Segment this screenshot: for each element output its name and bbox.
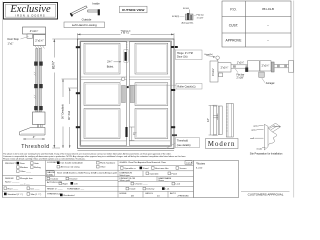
swing diagram <box>70 6 100 17</box>
hatch under box <box>35 46 45 49</box>
active leaf open (angled) <box>72 6 88 15</box>
svg-text:ACTIVE DOOR: ACTIVE DOOR <box>47 181 62 184</box>
right leaf panel1 <box>135 43 168 74</box>
deadbolt dot <box>127 86 129 88</box>
hinge block 1 <box>34 62 37 66</box>
svg-text:PRODUCT: PRODUCT <box>5 163 16 165</box>
door stop notch <box>27 34 33 38</box>
svg-text:Urn ____: Urn ____ <box>31 187 41 190</box>
svg-text:1"x1/4": 1"x1/4" <box>197 18 204 20</box>
svg-text:Brass ___: Brass ___ <box>159 179 170 182</box>
left leaf panel3 <box>84 109 120 139</box>
svg-text:Wrought Iron: Wrought Iron <box>20 177 33 180</box>
right leaf panel2 <box>135 83 168 106</box>
svg-text:12": 12" <box>133 133 137 136</box>
stop square <box>219 73 223 77</box>
svg-text:Residential: Residential <box>64 194 75 197</box>
hinge label box <box>176 50 203 60</box>
left col rows <box>3 174 46 176</box>
svg-text:TURNTABLE ___: TURNTABLE ___ <box>67 187 85 190</box>
handle bar <box>213 105 218 135</box>
svg-text:2"x1¾": 2"x1¾" <box>262 64 270 67</box>
svg-text:Window: Window <box>20 167 28 169</box>
svg-text:4"x1¾": 4"x1¾" <box>30 29 39 33</box>
right leaf panel3 <box>135 109 168 139</box>
svg-text:051-01-B: 051-01-B <box>262 7 274 11</box>
svg-text:wall: wall <box>250 138 254 140</box>
top flush bolt <box>124 50 128 63</box>
svg-text:2"x1/8": 2"x1/8" <box>237 77 244 79</box>
svg-text:Threshold: Threshold <box>21 144 49 150</box>
sheet right border <box>293 1 295 198</box>
roller catch circle <box>122 77 125 80</box>
svg-text:Steel 12GA Stainless 304b: Steel 12GA Stainless 304b Heavy 10GA Cus… <box>57 172 117 175</box>
svg-text:AUTO: AUTO <box>170 192 176 195</box>
svg-text:*Notes: *Notes <box>196 162 206 166</box>
svg-text:Fixed: Fixed <box>143 168 149 170</box>
hatched strip left lock stile <box>121 85 125 102</box>
svg-text:grout: grout <box>254 124 259 127</box>
svg-text:Bckst.: Bckst. <box>107 64 114 68</box>
svg-text:70½": 70½" <box>121 30 131 35</box>
svg-text:13": 13" <box>207 118 210 122</box>
svg-text:P.O.: P.O. <box>230 7 236 11</box>
svg-text:Left: Left <box>74 182 78 185</box>
svg-text:HINGE: 4" ____: HINGE: 4" ____ <box>47 188 63 190</box>
leaf box <box>218 63 231 72</box>
svg-text:Standard (1 ¾"): Standard (1 ¾") <box>8 193 24 196</box>
svg-text:Low-E: Low-E <box>186 162 193 164</box>
passive cap <box>98 9 100 15</box>
svg-text:APPROVE: APPROVE <box>226 38 243 42</box>
hinge ticks right frame <box>171 46 174 48</box>
svg-text:Railing: Railing <box>34 167 41 169</box>
dim 70.5 top <box>77 33 174 39</box>
svg-text:Please review all details care: Please review all details carefully. Gla… <box>3 157 86 160</box>
svg-text:4": 4" <box>33 135 35 139</box>
svg-text:2"x1¾": 2"x1¾" <box>35 39 44 43</box>
svg-text:Left Hand In-swing: Left Hand In-swing <box>72 23 97 27</box>
svg-text:Riser ____: Riser ____ <box>8 187 19 190</box>
dim 4 inch <box>23 138 45 140</box>
svg-text:OUTSIDE VIEW: OUTSIDE VIEW <box>122 8 145 12</box>
svg-text:81½": 81½" <box>52 60 56 69</box>
plan section detail right <box>210 56 294 82</box>
svg-text:Iron handle w/deadbolt: Iron handle w/deadbolt <box>61 162 84 165</box>
modern pull detail <box>209 104 234 138</box>
hinge cap active <box>70 13 73 17</box>
svg-text:Plank hardware: Plank hardware <box>100 162 116 165</box>
svg-text:GLASS: Clear/Tint Aquatex: GLASS: Clear/Tint Aquatex Rain Bronzish … <box>120 161 167 164</box>
svg-text:Door Stop: Door Stop <box>8 38 20 41</box>
svg-text:Inside: Inside <box>92 2 100 6</box>
svg-text:4"x1¾": 4"x1¾" <box>212 68 215 76</box>
spacing ticks <box>34 72 36 99</box>
svg-text:1"x1": 1"x1" <box>8 42 14 45</box>
svg-text:Name: ______: Name: ______ <box>5 182 20 184</box>
svg-text:Hurricane film: Hurricane film <box>155 167 169 170</box>
svg-text:Install: Install <box>130 188 136 191</box>
passive leaf closed <box>88 10 98 12</box>
svg-text:L.A.: L.A. <box>166 188 170 191</box>
right leaf slab <box>129 42 170 146</box>
svg-text:Silver gold ___: Silver gold ___ <box>120 179 135 182</box>
box 4x1.75 <box>23 27 46 34</box>
svg-text:American std swing: American std swing <box>61 166 81 169</box>
svg-text:40" Pull: 40" Pull <box>67 111 71 120</box>
svg-text:CUST.: CUST. <box>229 23 239 27</box>
svg-text:Screen: Screen <box>180 167 188 170</box>
svg-text:LOCKSET: LOCKSET <box>47 162 58 164</box>
svg-text:Fixed: Fixed <box>172 173 178 175</box>
svg-text:Operable or: Operable or <box>124 167 136 170</box>
svg-text:Outside: Outside <box>82 17 92 21</box>
Modern label box <box>206 139 239 149</box>
form texts right col <box>120 161 193 198</box>
svg-text:2"x1¾": 2"x1¾" <box>221 66 229 69</box>
svg-text:inside: inside <box>257 148 263 150</box>
notes box <box>194 161 239 198</box>
svg-text:Modern: Modern <box>208 141 236 148</box>
customers approval <box>241 190 290 192</box>
OUTSIDE VIEW box <box>120 6 148 13</box>
wide stile bar <box>226 104 233 138</box>
legs <box>37 125 39 128</box>
form texts left col <box>4 162 42 196</box>
svg-text:Other ____: Other ____ <box>20 170 32 173</box>
svg-text:Chrome ____: Chrome ____ <box>135 183 149 186</box>
svg-text:Flat bar: Flat bar <box>237 73 245 76</box>
svg-text:Astragal: Astragal <box>266 82 275 85</box>
bottom flush bolt <box>125 127 127 137</box>
svg-text:Metal type: __: Metal type: __ <box>120 174 135 177</box>
order form <box>3 161 194 198</box>
svg-text:Gate: Gate <box>34 162 40 165</box>
dim 12 flush bolt <box>129 127 134 141</box>
frame inner <box>80 41 171 146</box>
svg-text:grout: grout <box>252 129 257 132</box>
svg-text:R-100: R-100 <box>183 8 190 10</box>
svg-text:--: -- <box>267 38 269 42</box>
right terminal <box>289 61 294 72</box>
svg-text:2¾": 2¾" <box>107 59 112 63</box>
svg-text:___ x ___: ___ x ___ <box>19 184 30 186</box>
svg-text:DESIGN: DESIGN <box>5 178 14 180</box>
svg-text:50" Deadbolt: 50" Deadbolt <box>60 104 64 119</box>
left leaf panel1 <box>84 43 120 74</box>
hatched strip right lock stile <box>130 85 134 102</box>
svg-text:Flat bar: Flat bar <box>197 14 205 17</box>
dim 50 deadbolt <box>62 79 78 148</box>
svg-text:GRILLS: GRILLS <box>145 193 153 195</box>
frame outer <box>77 39 174 148</box>
svg-text:IRON & DOORS: IRON & DOORS <box>16 13 46 17</box>
left leaf slab <box>81 42 127 146</box>
P.O. table <box>222 1 291 47</box>
svg-text:Door (3x): Door (3x) <box>177 56 188 59</box>
svg-text:Site Preparation for Installat: Site Preparation for Installation <box>250 152 283 155</box>
svg-text:Delivery: Delivery <box>147 188 156 191</box>
hinge ticks left frame <box>76 46 80 48</box>
svg-text:Other: Other <box>100 166 106 169</box>
bottom rail box <box>33 112 46 125</box>
svg-text:--: -- <box>267 23 269 27</box>
mid rail lines <box>81 77 171 79</box>
svg-text:CUSTOMERS APPROVAL: CUSTOMERS APPROVAL <box>248 193 284 197</box>
svg-text:Astragal bkt.: Astragal bkt. <box>182 22 195 25</box>
svg-text:14GA: 14GA <box>47 174 53 177</box>
box 2x1.75 <box>34 35 46 46</box>
head jamb section top-left <box>8 27 46 49</box>
label Left Hand In-swing box <box>64 22 105 28</box>
roller catch label box <box>176 83 202 89</box>
astragal dashed line top <box>126 42 128 52</box>
fine print <box>3 152 186 160</box>
svg-text:Operable: Operable <box>150 172 160 175</box>
left jamb box <box>210 61 218 82</box>
dim 40 pull <box>68 88 77 148</box>
hinge block 3 <box>34 106 37 110</box>
second bar <box>218 106 222 135</box>
svg-text:Slim (1 ¼"): Slim (1 ¼") <box>31 193 42 196</box>
svg-text:Hinge: 4"x7"Ø: Hinge: 4"x7"Ø <box>177 52 193 55</box>
svg-text:+PRESSED: +PRESSED <box>177 196 189 198</box>
threshold label box <box>175 138 199 148</box>
corner detail site prep <box>255 123 281 150</box>
svg-text:Roller Catch(x1): Roller Catch(x1) <box>177 86 195 89</box>
svg-text:Knocker: Knocker <box>70 178 78 181</box>
svg-text:Door: Door <box>20 162 25 165</box>
right run <box>275 63 290 65</box>
flat bar run left <box>231 64 251 66</box>
astragal bracket mini detail <box>172 8 204 25</box>
logo box Exclusive Iron & Doors <box>4 3 58 20</box>
threshold wedge <box>20 127 46 135</box>
svg-text:Threshold: Threshold <box>177 139 189 142</box>
svg-text:Insulate: Insulate <box>51 178 59 181</box>
svg-text:SCR(2): SCR(2) <box>172 16 180 18</box>
door threshold ground line <box>77 149 174 151</box>
right col rows <box>118 165 194 167</box>
meeting boxes <box>248 61 260 71</box>
door elevation <box>76 39 178 148</box>
svg-text:(see details): (see details) <box>177 144 191 147</box>
cross tick detail <box>213 114 219 121</box>
hinge block 2 <box>34 84 37 88</box>
svg-text:GAUGE: GAUGE <box>47 171 55 174</box>
svg-text:HINGE: HINGE <box>120 193 127 195</box>
svg-text:Right: Right <box>63 182 68 185</box>
middle col rows <box>46 169 119 171</box>
astragal block <box>259 72 264 77</box>
bottom rail lines <box>81 140 127 142</box>
sheet left border <box>2 2 4 198</box>
svg-text:1"x1¾": 1"x1¾" <box>237 62 244 65</box>
circle marker <box>216 56 220 60</box>
left leaf panel2 <box>84 83 120 106</box>
roller catch leader <box>129 84 177 86</box>
svg-text:outside: outside <box>274 125 282 128</box>
form texts middle col <box>46 161 117 197</box>
svg-text:THRESHOLD: THRESHOLD <box>47 193 61 195</box>
dim 81.5 left <box>52 39 77 148</box>
jamb vertical section <box>20 49 50 151</box>
svg-text:IL-010: IL-010 <box>196 168 203 170</box>
svg-text:Hinge(3x): Hinge(3x) <box>205 54 214 56</box>
